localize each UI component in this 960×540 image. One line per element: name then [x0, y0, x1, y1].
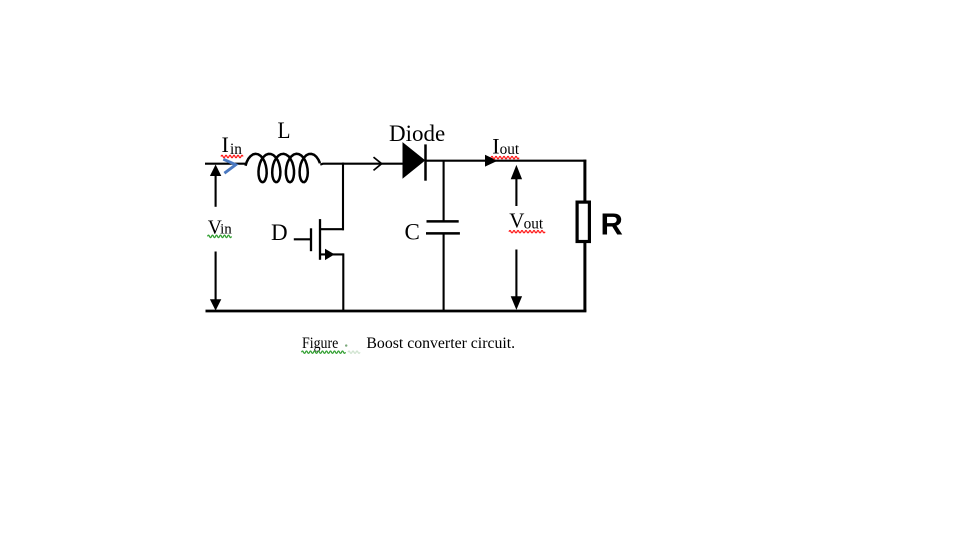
- svg-text:Vout: Vout: [509, 209, 544, 233]
- svg-text:D: D: [271, 220, 288, 245]
- svg-text:Figure: Figure: [302, 335, 338, 352]
- svg-text:Iout: Iout: [492, 133, 520, 158]
- svg-text:L: L: [278, 118, 291, 143]
- svg-text:C: C: [405, 220, 420, 245]
- svg-text:Iin: Iin: [222, 132, 243, 158]
- svg-text:Boost converter circuit.: Boost converter circuit.: [366, 335, 515, 352]
- svg-text:R: R: [601, 206, 623, 241]
- svg-text:Diode: Diode: [389, 121, 445, 146]
